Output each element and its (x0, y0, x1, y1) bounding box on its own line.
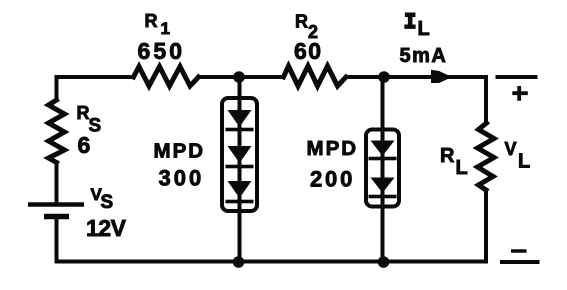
svg-text:L: L (456, 157, 468, 179)
svg-text:60: 60 (294, 38, 323, 64)
svg-text:S: S (101, 192, 114, 213)
terminal bar minus (500, 260, 540, 264)
svg-text:R: R (295, 12, 308, 32)
resistor R1 (134, 67, 199, 87)
battery VS plate short (44, 214, 69, 220)
svg-text:300: 300 (159, 166, 205, 191)
diode D1 of MPD300 (226, 110, 254, 131)
package box MPD200 (366, 130, 399, 207)
package box MPD300 (222, 98, 257, 211)
svg-text:L: L (418, 18, 430, 40)
svg-text:MPD: MPD (307, 137, 359, 160)
svg-text:200: 200 (310, 167, 355, 192)
resistor RS (49, 100, 65, 163)
diode D3 of MPD300 (226, 181, 254, 203)
wire RL to bottom (484, 190, 488, 262)
resistor R2 (284, 66, 347, 86)
svg-text:5mA: 5mA (400, 45, 448, 67)
bottom junction dot left (233, 256, 245, 268)
diode D2 of MPD300 (226, 146, 254, 168)
wire battery to bottom (55, 219, 59, 262)
svg-text:6: 6 (78, 132, 91, 158)
plus sign (512, 86, 528, 101)
svg-text:R: R (440, 145, 455, 167)
node A junction dot (233, 71, 245, 83)
current arrow IL head (431, 70, 452, 83)
wire right vertical top (484, 77, 488, 123)
wire R1 to node A (199, 75, 284, 79)
svg-text:V: V (505, 139, 517, 159)
diode D1 of MPD200 (369, 141, 397, 161)
terminal bar plus (496, 75, 538, 79)
bottom junction dot right (378, 256, 390, 268)
wire RS to battery (55, 163, 59, 203)
node B junction dot (378, 71, 390, 83)
wire R2 to node B (346, 75, 486, 79)
svg-text:12V: 12V (86, 215, 127, 241)
svg-text:R: R (145, 11, 158, 31)
svg-text:MPD: MPD (154, 140, 206, 163)
wire MPD200 vertical (381, 77, 385, 262)
minus sign (511, 249, 527, 253)
wire top left segment (57, 75, 134, 79)
diode D2 of MPD200 (369, 178, 397, 199)
wire MPD300 vertical (238, 77, 242, 262)
battery VS plate long (28, 202, 84, 207)
svg-text:L: L (518, 151, 530, 173)
svg-text:S: S (89, 116, 102, 137)
wire left vertical top (55, 77, 59, 100)
svg-text:1: 1 (161, 19, 170, 38)
label IL (405, 13, 415, 28)
resistor RL (478, 123, 495, 190)
wire bottom (57, 260, 487, 264)
svg-text:650: 650 (138, 38, 186, 64)
